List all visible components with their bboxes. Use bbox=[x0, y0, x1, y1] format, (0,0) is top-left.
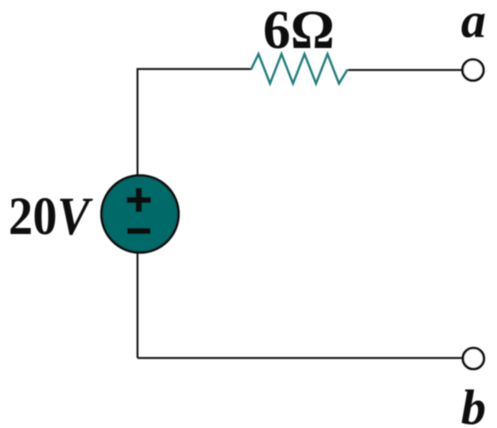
wire resistor to terminal a bbox=[348, 69, 462, 71]
wire top-left horizontal (source top to resistor) bbox=[138, 69, 253, 176]
source value label 20V bbox=[9, 187, 94, 247]
voltage source V1 circle bbox=[102, 176, 179, 253]
resistor R 6ohm zigzag bbox=[251, 54, 348, 84]
voltage source minus sign bbox=[127, 228, 151, 234]
wire source bottom to corner bbox=[137, 252, 139, 358]
svg-text:b: b bbox=[461, 379, 486, 428]
svg-text:20V: 20V bbox=[9, 187, 94, 247]
voltage source plus sign bbox=[127, 188, 152, 212]
wire bottom horizontal to terminal b bbox=[138, 357, 463, 359]
terminal a circle bbox=[463, 60, 484, 81]
terminal b circle bbox=[463, 348, 484, 369]
svg-text:6Ω: 6Ω bbox=[263, 0, 335, 60]
svg-text:a: a bbox=[461, 0, 486, 48]
